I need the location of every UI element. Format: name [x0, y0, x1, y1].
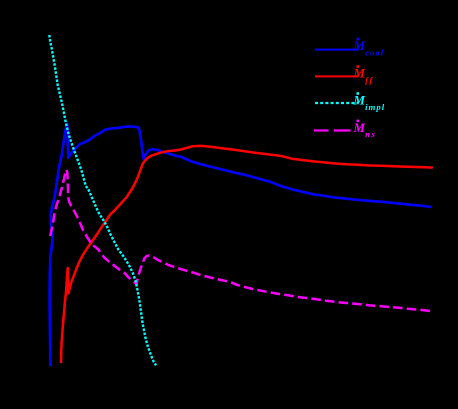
- legend label Mdot_cool: [357, 38, 360, 41]
- svg-text:M: M: [353, 65, 366, 80]
- legend line blue: [315, 49, 359, 51]
- svg-text:ns: ns: [365, 129, 376, 139]
- curve Mdot_ff (red solid): [61, 146, 433, 363]
- svg-text:M: M: [353, 120, 366, 135]
- svg-text:ff: ff: [365, 75, 374, 85]
- svg-text:M: M: [353, 92, 366, 107]
- curve Mdot_impl (cyan dotted): [49, 35, 156, 365]
- curve Mdot_ns (magenta dashed): [50, 170, 434, 312]
- legend line magenta dashed (dash 1): [314, 129, 329, 131]
- legend line red: [315, 75, 359, 77]
- svg-text:cool: cool: [365, 47, 384, 57]
- legend label Mdot_impl: [357, 92, 360, 95]
- legend label Mdot_ff: [357, 65, 360, 68]
- svg-text:impl: impl: [365, 102, 385, 112]
- legend label Mdot_ns: [357, 120, 360, 123]
- legend line magenta dashed (dash 2): [334, 129, 351, 131]
- svg-text:M: M: [353, 38, 366, 53]
- curve Mdot_cool (blue solid): [50, 124, 432, 366]
- legend line cyan dotted: [315, 102, 359, 104]
